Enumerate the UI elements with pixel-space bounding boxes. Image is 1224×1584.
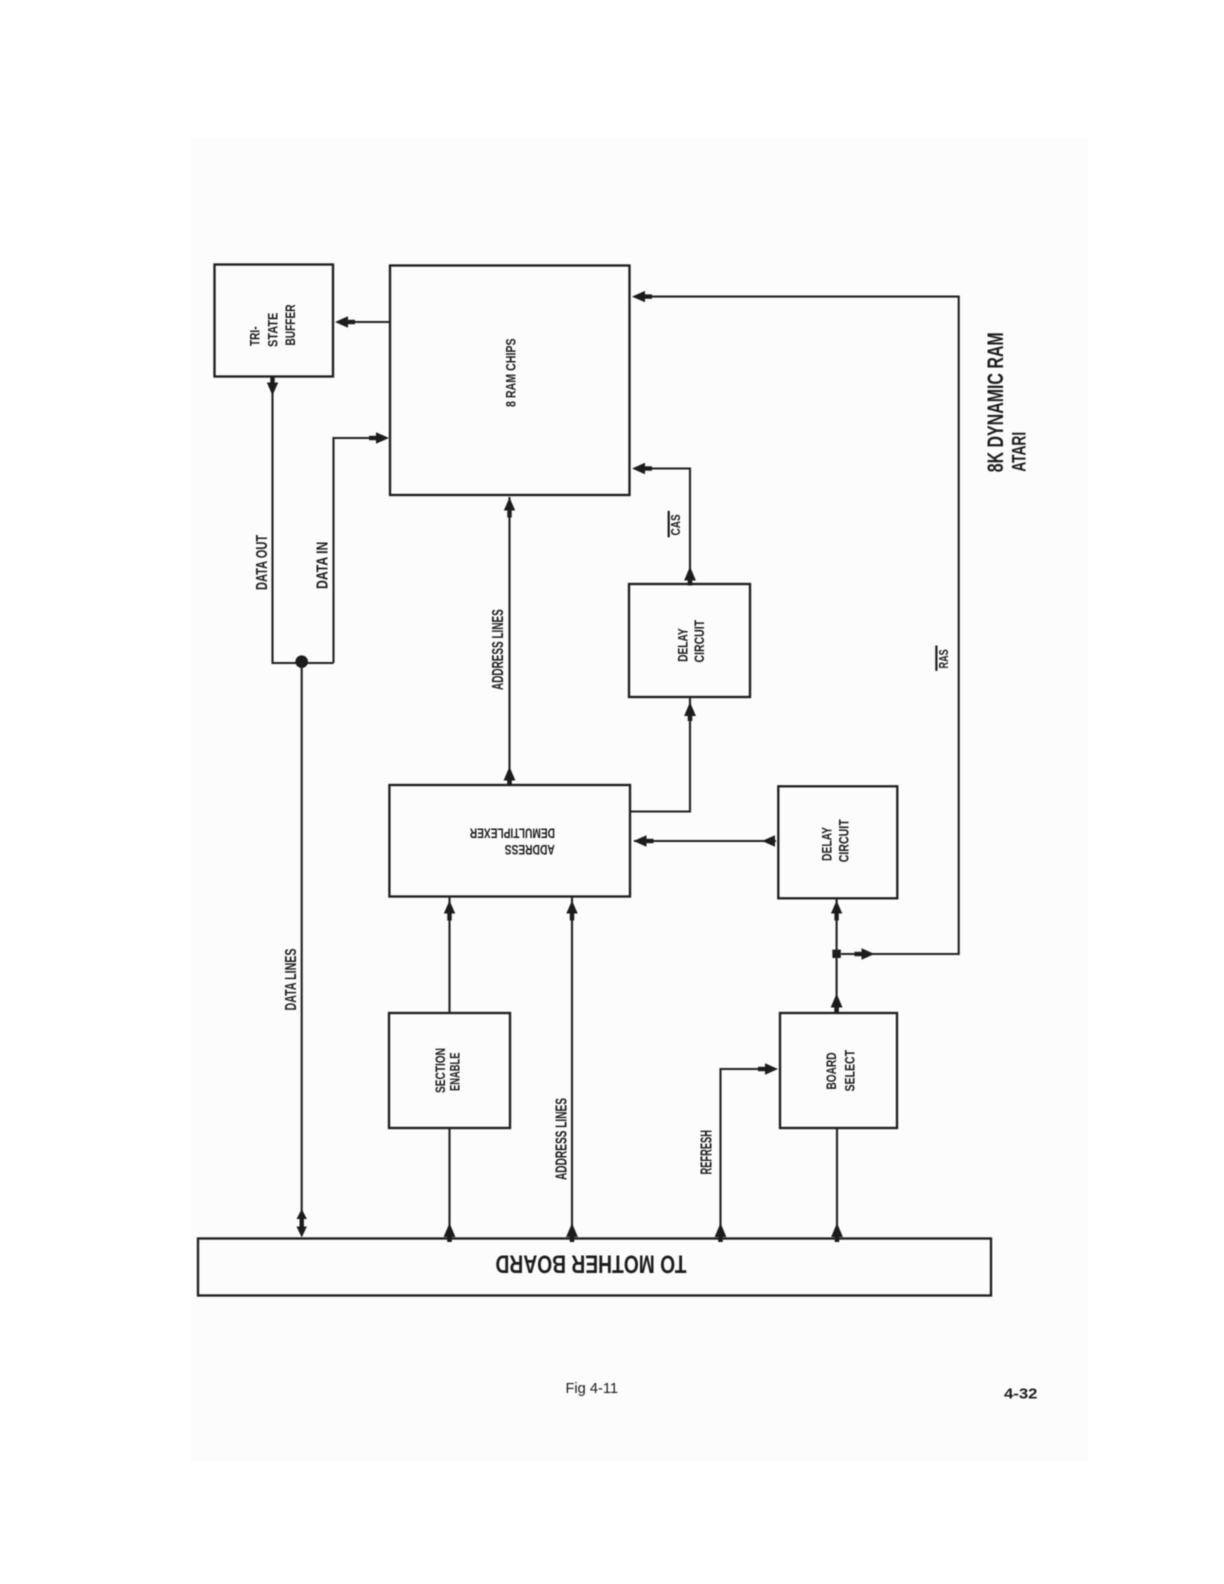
wire: demux to section enable [444,897,455,1014]
box: 8 RAM chips [390,266,630,496]
label: RAS (overlined) [936,646,951,671]
svg-text:DELAY: DELAY [675,628,690,661]
wire: CAS (delay circuit 1 to RAM) [632,463,696,586]
label: CAS (overlined) [669,511,683,538]
wire: RAS loop (junction right, up, into RAM) [632,291,959,960]
svg-text:DATA OUT: DATA OUT [254,534,271,590]
svg-text:ADDRESS LINES: ADDRESS LINES [490,609,507,690]
wire: board select up to junction [831,954,843,1013]
scan page background [191,138,1088,1461]
junction node: data lines [295,655,308,668]
svg-text:BUFFER: BUFFER [283,304,298,345]
svg-text:DATA IN: DATA IN [314,542,331,589]
svg-text:8 RAM CHIPS: 8 RAM CHIPS [504,338,519,407]
svg-text:DELAY: DELAY [820,827,835,861]
svg-text:4-32: 4-32 [1004,1386,1038,1403]
svg-text:SECTION: SECTION [433,1048,448,1093]
svg-text:DATA LINES: DATA LINES [283,949,300,1011]
svg-text:RAS: RAS [937,649,951,668]
wire: address lines (mother board to demux) [566,897,578,1243]
box: delay circuit 1 (CAS) [629,584,750,697]
svg-text:TO MOTHER BOARD: TO MOTHER BOARD [496,1249,687,1277]
svg-text:CAS: CAS [669,514,683,535]
junction node: RAS [832,950,840,958]
wire: delay circuit 2 to demux [634,835,777,846]
wire: address lines (demux up to RAM) [504,497,516,786]
svg-text:TRI-: TRI- [248,326,263,346]
wire: section enable to mother board [444,1128,456,1242]
svg-text:STATE: STATE [265,313,280,347]
wire: demux to delay circuit 1 [630,697,696,812]
svg-text:ATARI: ATARI [1009,432,1031,472]
box: section enable [389,1013,510,1128]
wire: RAM data out to tri-state buffer [335,316,390,327]
svg-text:CIRCUIT: CIRCUIT [837,819,852,863]
bus bar: to mother board [198,1239,991,1296]
box: delay circuit 2 (RAS) [778,786,897,898]
svg-text:DEMULTIPLEXER: DEMULTIPLEXER [470,825,555,841]
svg-text:8K DYNAMIC RAM: 8K DYNAMIC RAM [983,332,1008,472]
svg-text:ADDRESS: ADDRESS [505,842,555,858]
svg-text:CIRCUIT: CIRCUIT [692,619,707,662]
svg-text:ADDRESS LINES: ADDRESS LINES [553,1098,570,1180]
svg-text:REFRESH: REFRESH [699,1130,716,1175]
wire: data lines to mother board [297,663,307,1238]
wire: refresh (mother board to board select) [715,1063,778,1242]
box: tri-state buffer U1 [215,265,334,377]
box: address demultiplexer [389,785,630,897]
wire: junction to delay circuit 2 [831,898,842,954]
wire: board select to mother board [831,1128,843,1242]
svg-text:SELECT: SELECT [843,1049,858,1091]
svg-text:ENABLE: ENABLE [448,1053,463,1092]
box: board select [780,1013,897,1128]
svg-text:Fig 4-11: Fig 4-11 [566,1380,619,1397]
wire: data out (tri-state buffer down to junction) [267,376,334,664]
wire: data in (junction up and into RAM) [334,432,390,663]
svg-text:BOARD: BOARD [824,1052,839,1089]
